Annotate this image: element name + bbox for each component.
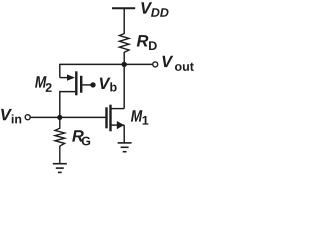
wire M1 source lead: [112, 124, 125, 126]
resistor RG: [55, 117, 65, 163]
terminal circle Vin: [25, 115, 30, 120]
label M1: [131, 110, 143, 121]
resistor RD: [119, 34, 129, 53]
transistor M2 channel bar: [75, 71, 77, 95]
label VDD: [141, 2, 152, 13]
wire M2 top (source to node): [60, 63, 124, 65]
ground under RG: [53, 164, 67, 173]
label Vout: [162, 56, 173, 67]
arrowhead M2 source (points into channel): [67, 74, 75, 80]
node dot drain/Vout junction: [122, 62, 127, 67]
wire M1 source down to ground: [123, 125, 125, 142]
wire M2 bottom lead: [60, 92, 75, 118]
wire RD to output node: [123, 52, 125, 64]
node dot Vin/RG junction: [57, 115, 62, 120]
wire M2 upper-left vertical: [59, 64, 61, 78]
node dot Vb: [90, 82, 95, 87]
power rail VDD bar: [112, 7, 135, 9]
arrowhead M1 source (points away from channel): [117, 121, 124, 129]
label RD: [137, 35, 149, 46]
ground under M1: [118, 143, 132, 152]
wire node down to M1 drain: [123, 64, 125, 108]
wire M1 drain lead: [112, 108, 125, 110]
wire M2 source arrow lead: [60, 77, 70, 79]
wire VDD bar to RD: [123, 8, 125, 34]
label Vb: [100, 78, 111, 89]
label M2: [35, 76, 47, 87]
wire node to Vout terminal: [124, 63, 152, 65]
transistor M2 gate bar: [80, 76, 82, 93]
label RG: [72, 130, 84, 141]
terminal circle Vout: [153, 62, 158, 67]
transistor M1 gate bar: [105, 107, 107, 128]
wire M2 gate to Vb: [82, 84, 90, 86]
wire Vin rail to M1 gate: [30, 116, 105, 118]
label Vin: [1, 109, 12, 120]
transistor M1 channel bar: [109, 105, 111, 132]
